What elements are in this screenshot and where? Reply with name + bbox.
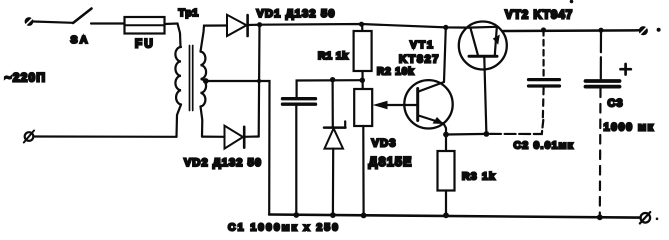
svg-text:VD1 Д132 50: VD1 Д132 50 [257,8,336,20]
wire VD2 cathode riser [258,25,261,137]
capacitor C1 [283,80,362,215]
svg-text:FU: FU [135,39,155,51]
output terminal top (+) [639,26,648,35]
resistor R3 [438,135,455,216]
wire input bottom [34,135,177,138]
wire top rail right [504,29,639,32]
resistor R1 [354,24,372,89]
transistor VT1 [404,27,452,134]
diode VD2 [225,126,259,149]
wire secondary top lead to VD1 [201,26,228,52]
svg-text:Tp1: Tp1 [179,7,199,19]
junction top rail / R1 [359,22,364,27]
wire secondary to VD2 anode [202,136,225,138]
R2 wiper arrow to VT1 base [373,101,418,109]
svg-text:R3 1k: R3 1k [462,171,496,183]
output terminal bottom (-) [640,212,651,224]
junction top rail / VD2 riser [257,22,262,27]
svg-text:1000 мк: 1000 мк [604,122,655,134]
transformer T1 core [190,46,193,111]
junction ref line / VD3 [330,77,335,82]
junction centre tap [203,78,209,84]
svg-text:VT1: VT1 [410,39,435,51]
junction top rail / VT1 collector [443,25,448,30]
C3 polarity plus [621,64,631,75]
transformer T1 primary winding [175,47,181,105]
transistor VT2 [459,22,507,134]
wire primary bottom lead [177,105,182,137]
wire top rail left [249,24,469,28]
wire VD3 top lead [332,80,334,127]
junction rail / C2 [541,27,546,32]
junction R2 / bottom rail [361,213,367,219]
speck top right corner [570,0,574,3]
svg-text:SA: SA [71,34,90,46]
input terminal bottom (X2) [24,131,34,143]
bottom rail [269,215,640,218]
svg-text:KT827: KT827 [399,54,440,66]
svg-text:VT2 KT947: VT2 KT947 [505,10,573,22]
transformer T1 secondary winding [201,52,207,107]
svg-text:~220П: ~220П [5,71,47,85]
svg-text:VD3: VD3 [372,138,397,150]
junction C3 / bottom rail [597,214,603,220]
svg-text:C2 0.01мк: C2 0.01мк [514,140,575,152]
junction VD3 / bottom rail [330,212,336,218]
svg-text:C3: C3 [608,98,624,110]
capacitor C3 [586,30,620,217]
wire node to VT2 base [446,133,488,136]
wire node to C2 (dashed) [490,120,543,134]
node VT1 emitter / VT2 base / R3 [443,132,449,138]
svg-text:Д815Е: Д815Е [369,155,413,169]
switch SA [73,9,124,24]
svg-text:VD2 Д132 50: VD2 Д132 50 [184,157,262,169]
wire input top to switch [34,22,74,23]
junction blob riser crosses centre tap [257,79,261,83]
wire secondary bottom lead [201,107,203,137]
svg-text:R2 10k: R2 10k [377,67,415,78]
junction VT2 base [484,131,490,137]
speck right of top terminal [657,28,661,32]
wire secondary centre tap [206,81,270,215]
input terminal top (X1) [25,17,34,26]
svg-text:C1 1000мк х 250: C1 1000мк х 250 [228,222,340,234]
junction R3 / bottom rail [443,212,449,218]
potentiometer R2 [354,89,372,215]
wire fuse to transformer primary [165,24,181,48]
speck right of bottom terminal [656,218,659,221]
fuse FU [125,17,165,34]
capacitor C2 [529,30,560,120]
svg-text:R1 1k: R1 1k [318,50,349,62]
zener diode VD3 [324,121,345,215]
junction rail / C3 [598,28,603,33]
diode VD1 [227,15,248,36]
junction C1 / bottom rail [293,212,299,218]
junction ref line / R1-R2 [360,78,365,83]
